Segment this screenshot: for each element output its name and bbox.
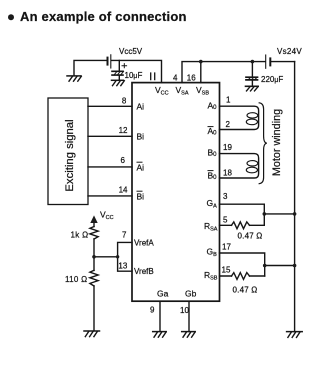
svg-text:5: 5 <box>223 216 228 225</box>
svg-text:7: 7 <box>122 230 127 239</box>
svg-text:Gb: Gb <box>185 289 197 299</box>
svg-text:A0: A0 <box>208 126 218 137</box>
svg-text:4: 4 <box>173 74 178 83</box>
svg-text:RSA: RSA <box>204 221 218 233</box>
svg-text:Vcc5V: Vcc5V <box>119 47 143 56</box>
svg-text:Ai: Ai <box>137 101 145 111</box>
svg-text:Bi: Bi <box>137 192 145 202</box>
svg-text:14: 14 <box>119 186 128 195</box>
svg-text:VCC: VCC <box>155 85 169 97</box>
svg-text:RSB: RSB <box>204 270 218 282</box>
svg-text:Ga: Ga <box>157 289 169 299</box>
svg-text:220μF: 220μF <box>261 75 283 84</box>
svg-text:19: 19 <box>223 143 232 152</box>
svg-text:Exciting signal: Exciting signal <box>64 119 76 191</box>
svg-text:10: 10 <box>180 306 189 315</box>
svg-text:B0: B0 <box>208 171 218 182</box>
svg-text:VSA: VSA <box>176 85 189 97</box>
svg-text:Vs24V: Vs24V <box>277 47 302 56</box>
svg-text:B0: B0 <box>208 148 218 159</box>
svg-text:GA: GA <box>207 198 218 210</box>
svg-text:15: 15 <box>222 266 231 275</box>
svg-text:8: 8 <box>122 97 127 106</box>
svg-text:3: 3 <box>223 192 228 201</box>
svg-text:VSB: VSB <box>196 85 209 97</box>
svg-text:VrefA: VrefA <box>134 238 154 247</box>
svg-text:6: 6 <box>121 156 126 165</box>
svg-text:17: 17 <box>222 243 231 252</box>
svg-text:Motor winding: Motor winding <box>271 109 283 176</box>
svg-text:GB: GB <box>207 247 218 259</box>
svg-text:An example of connection: An example of connection <box>20 9 187 24</box>
svg-text:2: 2 <box>226 120 231 129</box>
svg-text:0.47 Ω: 0.47 Ω <box>238 232 263 241</box>
svg-text:9: 9 <box>150 306 155 315</box>
svg-text:VrefB: VrefB <box>134 267 154 276</box>
svg-text:VCC: VCC <box>100 210 114 222</box>
svg-text:13: 13 <box>118 261 127 270</box>
svg-text:Bi: Bi <box>137 132 145 142</box>
svg-text:16: 16 <box>187 74 196 83</box>
svg-text:Ai: Ai <box>137 163 145 173</box>
svg-text:A0: A0 <box>208 100 218 111</box>
svg-text:1k Ω: 1k Ω <box>71 231 89 240</box>
svg-text:110 Ω: 110 Ω <box>65 275 87 284</box>
svg-text:10μF: 10μF <box>125 71 143 80</box>
svg-text:12: 12 <box>119 126 128 135</box>
svg-text:1: 1 <box>226 96 231 105</box>
svg-text:18: 18 <box>223 169 232 178</box>
svg-text:0.47 Ω: 0.47 Ω <box>233 286 258 295</box>
